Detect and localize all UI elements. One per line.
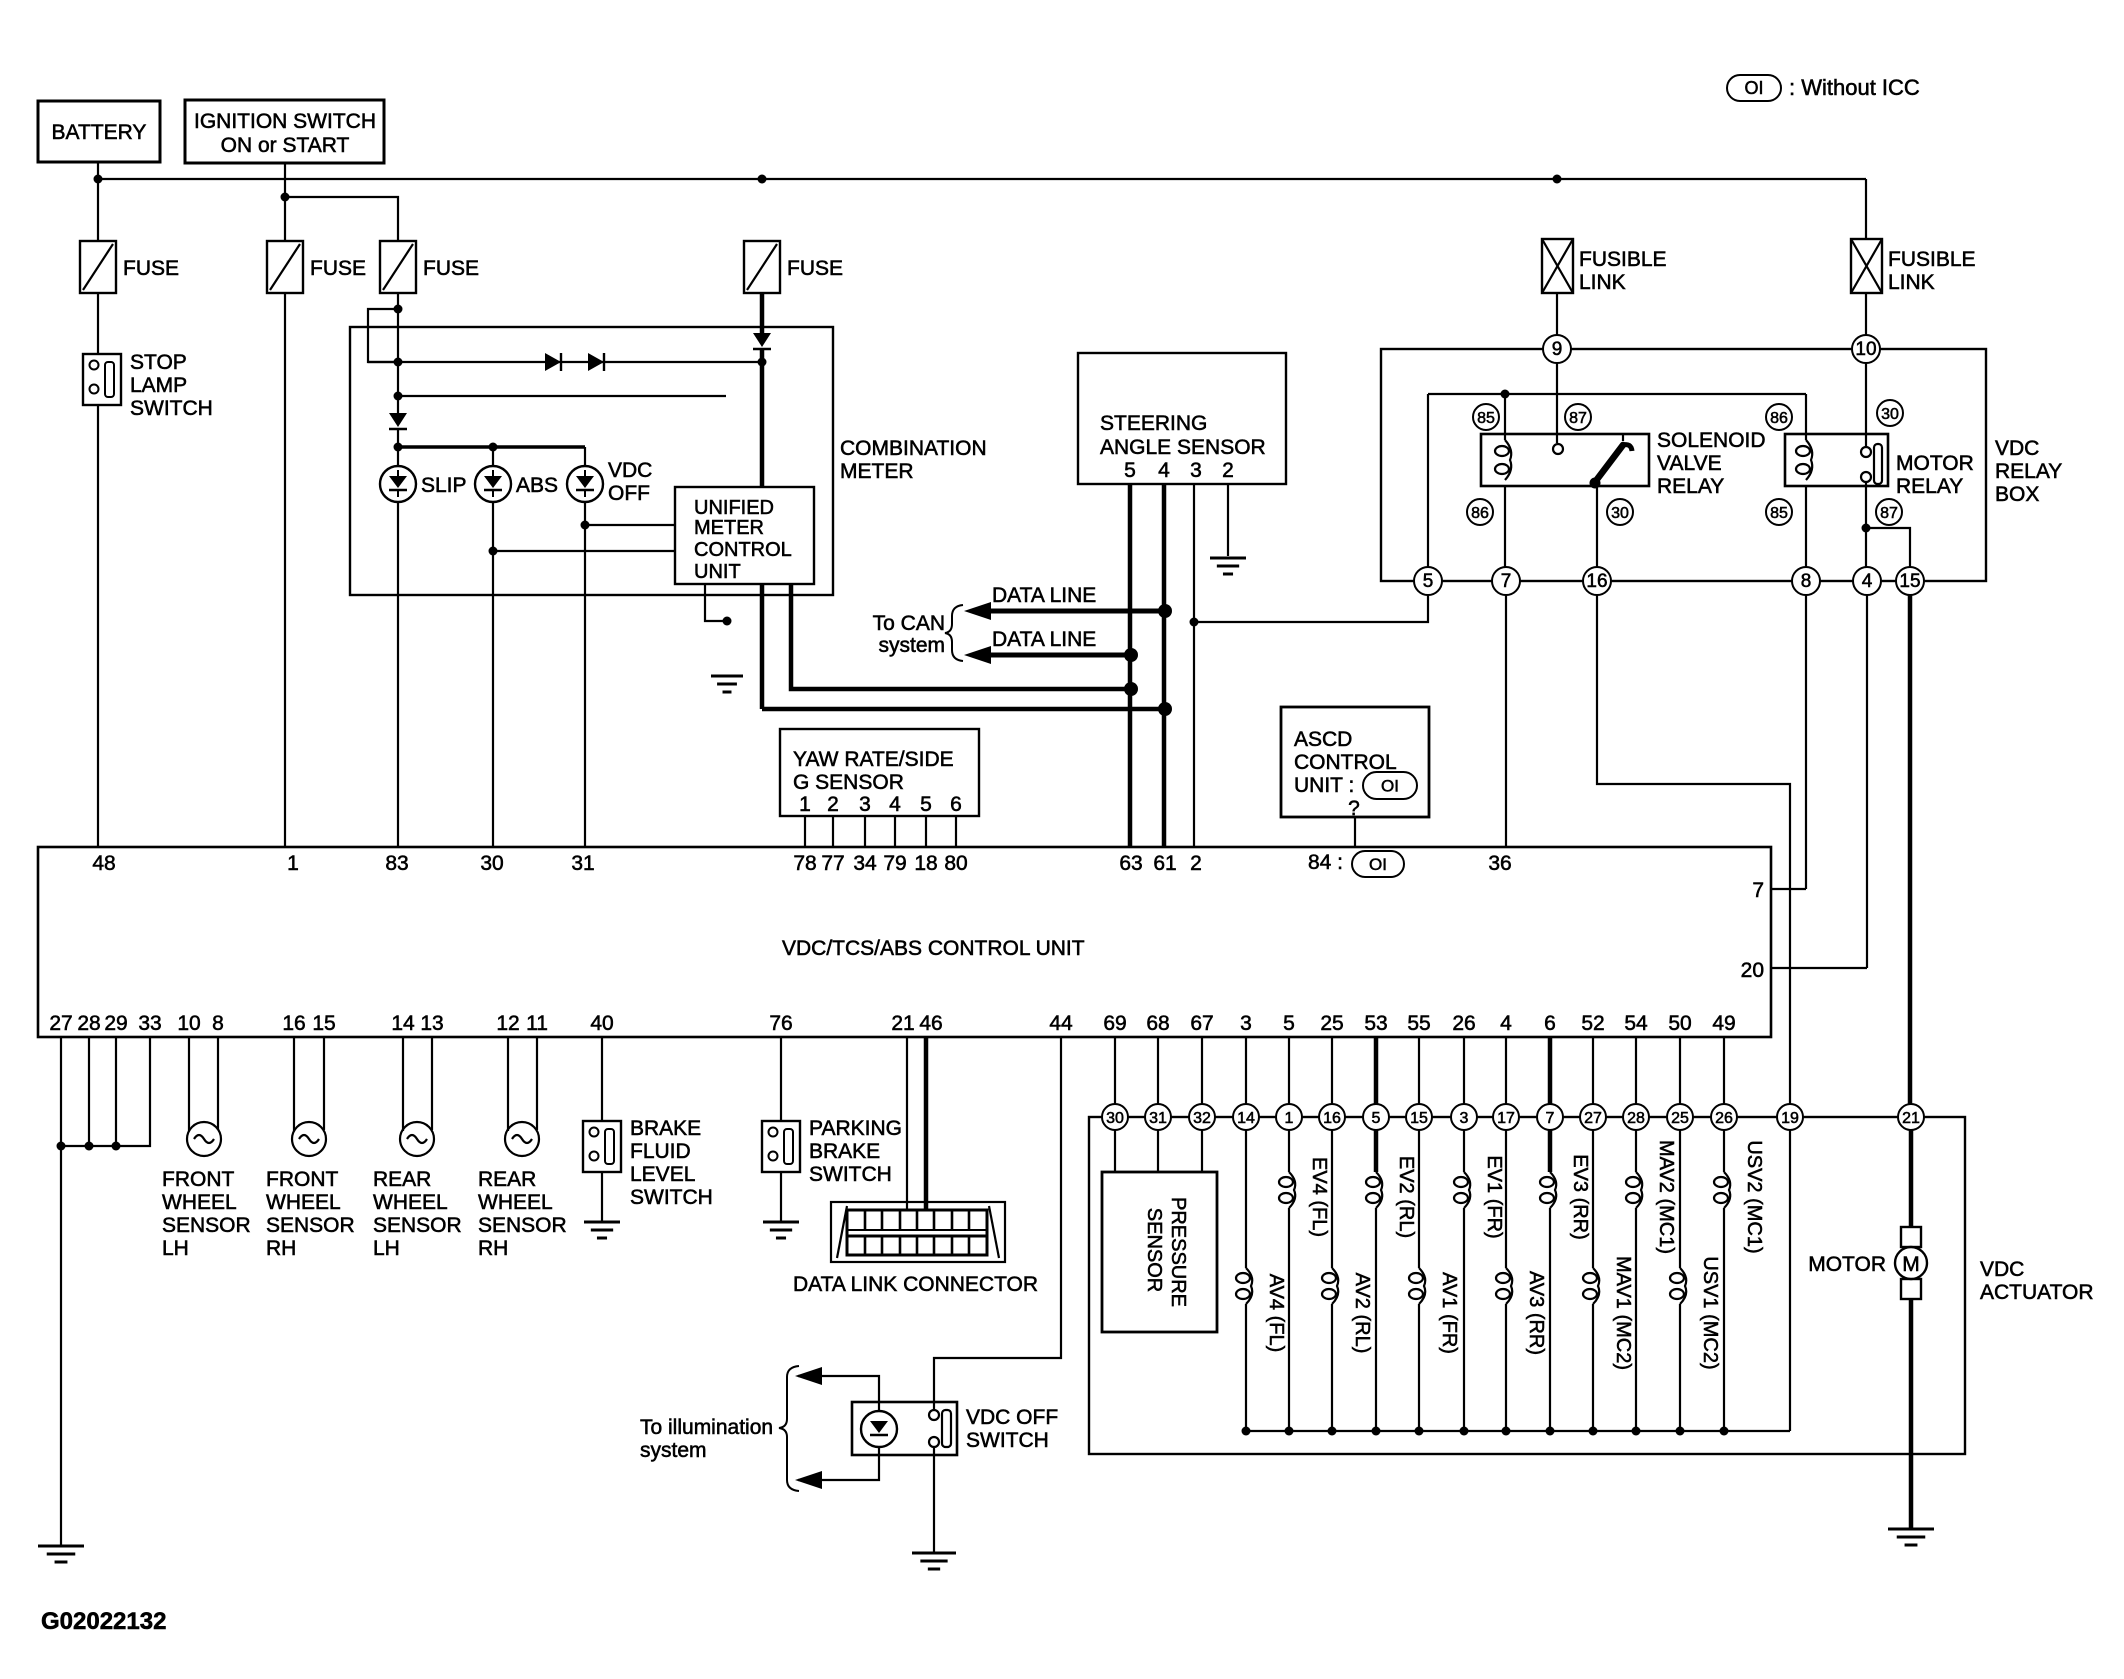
svg-text:STEERING: STEERING [1100, 412, 1207, 435]
svg-text:PRESSURE: PRESSURE [1167, 1197, 1189, 1307]
svg-text:VDC: VDC [1995, 437, 2039, 460]
vdc off switch box [852, 1402, 1058, 1455]
svg-text:COMBINATION: COMBINATION [840, 437, 987, 460]
pin c16 actuator [1319, 1104, 1345, 1130]
svg-text:46: 46 [919, 1012, 942, 1035]
svg-text:EV4 (FL): EV4 (FL) [1308, 1157, 1330, 1237]
pin 85 motor [1766, 499, 1792, 525]
pin 8 relaybox [1792, 567, 1820, 595]
svg-text:M: M [1902, 1253, 1920, 1276]
node coil USV1 (MC2) [1676, 1427, 1685, 1436]
svg-text:87: 87 [1880, 505, 1898, 522]
svg-text:STOP: STOP [130, 351, 187, 374]
wire ASCD to pin 84 [1354, 817, 1356, 847]
wires pins 27-33 [61, 1037, 150, 1146]
svg-text:REAR: REAR [478, 1168, 536, 1191]
unified meter control unit box [675, 487, 814, 584]
pin c19 actuator [1777, 1104, 1803, 1130]
node pin3 branch [1190, 618, 1199, 627]
wire pin 31 pressure [1157, 1037, 1159, 1172]
svg-text:RH: RH [266, 1237, 296, 1260]
indicator lamp SLIP [380, 466, 467, 502]
data line arrow 1 [964, 584, 1165, 620]
svg-text:5: 5 [1423, 571, 1434, 592]
solenoid EV1 (FR) wire [1454, 1037, 1505, 1431]
svg-text:44: 44 [1049, 1012, 1073, 1035]
pin 10 [1852, 335, 1880, 363]
node relay feed coil [1501, 390, 1510, 399]
pin c3 actuator [1451, 1104, 1477, 1130]
svg-text:IGNITION SWITCH: IGNITION SWITCH [194, 110, 376, 133]
labels control unit bottom pins [49, 1012, 1735, 1035]
pin 87 solenoid [1565, 404, 1591, 430]
svg-text:30: 30 [1611, 505, 1629, 522]
svg-text:48: 48 [92, 852, 115, 875]
wire fuse4 down [760, 293, 765, 334]
svg-text:33: 33 [138, 1012, 161, 1035]
pin 5 relaybox [1414, 567, 1442, 595]
wire parking brake to ground [780, 1172, 782, 1222]
svg-text:11: 11 [526, 1012, 548, 1035]
node data line 2 [1124, 648, 1138, 662]
wire stop lamp to pin 48 [97, 405, 99, 847]
svg-text:4: 4 [1500, 1012, 1512, 1035]
solenoid AV4 (FL) wire [1236, 1037, 1287, 1431]
svg-text:ANGLE SENSOR: ANGLE SENSOR [1100, 436, 1266, 459]
wire abs to pin 30 [492, 502, 494, 847]
wire diode row [368, 361, 762, 363]
pressure sensor box [1102, 1172, 1217, 1332]
svg-text:7: 7 [1501, 571, 1512, 592]
parking brake switch [762, 1117, 902, 1186]
svg-text:LEVEL: LEVEL [630, 1163, 695, 1186]
svg-text:system: system [640, 1439, 707, 1462]
wire feed to motor coil [1805, 394, 1807, 440]
wire switch to ground [933, 1447, 935, 1553]
fuse F2 [267, 241, 366, 293]
diode D4 [753, 333, 771, 349]
pin 86 solenoid [1467, 499, 1493, 525]
svg-text:80: 80 [944, 852, 967, 875]
wire pin 40 down [601, 1037, 603, 1121]
svg-text:LH: LH [373, 1237, 400, 1260]
svg-text:31: 31 [571, 852, 594, 875]
svg-text:WHEEL: WHEEL [266, 1191, 341, 1214]
svg-text:To CAN: To CAN [873, 612, 945, 635]
wire sensor pin4 to pin61 [1162, 484, 1167, 847]
node bus-battery [94, 175, 103, 184]
node coil EV2 (RL) [1372, 1427, 1381, 1436]
wires rear wheel sensor LH [403, 1037, 432, 1131]
pin c1 actuator [1276, 1104, 1302, 1130]
svg-text:3: 3 [1240, 1012, 1252, 1035]
svg-text:YAW RATE/SIDE: YAW RATE/SIDE [793, 748, 954, 771]
svg-text:10: 10 [1855, 339, 1876, 360]
data line arrow 2 [964, 628, 1131, 664]
svg-text:?: ? [1348, 797, 1360, 820]
svg-text:ON or START: ON or START [221, 134, 350, 157]
legend OI without ICC [1727, 75, 1920, 101]
node diode row left [394, 358, 403, 367]
svg-text:27: 27 [1584, 1110, 1602, 1127]
node coil AV1 (FR) [1415, 1427, 1424, 1436]
svg-text:8: 8 [1801, 571, 1812, 592]
wire 10 to contact [1865, 363, 1867, 447]
pin c21 actuator [1898, 1104, 1924, 1130]
svg-text:BOX: BOX [1995, 483, 2039, 506]
svg-text:3: 3 [859, 793, 871, 816]
svg-text:LINK: LINK [1579, 271, 1626, 294]
wire brake fluid to ground [601, 1172, 603, 1222]
node bus-fusiblelink1 [1553, 175, 1562, 184]
svg-text:BRAKE: BRAKE [809, 1140, 880, 1163]
svg-text:17: 17 [1497, 1110, 1515, 1127]
fuse F4 [744, 241, 843, 293]
wire sensor pin3 to pin2 [1193, 484, 1195, 847]
svg-text:15: 15 [312, 1012, 335, 1035]
svg-text:OFF: OFF [608, 482, 650, 505]
svg-text:4: 4 [889, 793, 901, 816]
svg-text:SWITCH: SWITCH [130, 397, 213, 420]
svg-text:VDC/TCS/ABS CONTROL UNIT: VDC/TCS/ABS CONTROL UNIT [782, 937, 1085, 960]
svg-text:54: 54 [1624, 1012, 1648, 1035]
stop lamp switch [83, 351, 213, 420]
wire 19 down [1789, 1130, 1791, 1431]
svg-text:3: 3 [1190, 459, 1202, 482]
indicator lamp ABS [475, 466, 558, 502]
pin c25 actuator [1667, 1104, 1693, 1130]
svg-text:5: 5 [1372, 1110, 1381, 1127]
motor relay contact [1861, 444, 1882, 484]
svg-text:21: 21 [891, 1012, 914, 1035]
svg-text:SENSOR: SENSOR [266, 1214, 355, 1237]
wire 4 to pin 20 [1866, 595, 1868, 968]
vdc off switch contacts [929, 1410, 951, 1447]
wire FL1 to circle 9 [1556, 293, 1558, 335]
svg-text:2: 2 [1222, 459, 1234, 482]
wire coil top [1504, 394, 1506, 440]
pin c14 actuator [1233, 1104, 1259, 1130]
svg-text:40: 40 [590, 1012, 613, 1035]
pin 86 motor [1766, 404, 1792, 430]
svg-text:EV1 (FR): EV1 (FR) [1483, 1155, 1505, 1238]
wire stub pin7 [1771, 888, 1806, 890]
wire solenoid contact to 16 [1596, 486, 1598, 567]
svg-text:1: 1 [287, 852, 299, 875]
svg-text:LH: LH [162, 1237, 189, 1260]
svg-text:DATA LINE: DATA LINE [992, 628, 1096, 651]
ASCD control unit box [1281, 707, 1429, 820]
pin 9 [1543, 335, 1571, 363]
svg-text:20: 20 [1741, 959, 1764, 982]
svg-text:6: 6 [950, 793, 962, 816]
svg-text:2: 2 [827, 793, 839, 816]
svg-text:28: 28 [77, 1012, 100, 1035]
svg-text:86: 86 [1471, 505, 1489, 522]
diode D3 [389, 413, 407, 429]
svg-text:16: 16 [282, 1012, 305, 1035]
svg-text:RELAY: RELAY [1657, 475, 1724, 498]
svg-text:EV3 (RR): EV3 (RR) [1569, 1154, 1591, 1240]
vdc off switch LED [861, 1411, 897, 1447]
svg-text:25: 25 [1671, 1110, 1689, 1127]
svg-text:VDC: VDC [1980, 1258, 2024, 1281]
svg-text:USV2 (MC1): USV2 (MC1) [1743, 1140, 1765, 1253]
wire pin 76 down [780, 1037, 782, 1121]
svg-text:26: 26 [1452, 1012, 1475, 1035]
svg-text:16: 16 [1586, 571, 1607, 592]
wires front wheel sensor RH [294, 1037, 324, 1131]
pin 4 relaybox [1853, 567, 1881, 595]
wire pin 21 down [906, 1037, 908, 1210]
wire bus corner to FL2 [1865, 179, 1867, 239]
svg-text:G SENSOR: G SENSOR [793, 771, 904, 794]
steering angle sensor box [1078, 353, 1286, 484]
svg-text:METER: METER [840, 460, 914, 483]
svg-text:67: 67 [1190, 1012, 1213, 1035]
svg-text:FUSIBLE: FUSIBLE [1579, 248, 1667, 271]
svg-text:53: 53 [1364, 1012, 1387, 1035]
svg-text:CONTROL: CONTROL [1294, 751, 1397, 774]
svg-text:RH: RH [478, 1237, 508, 1260]
pin c17 actuator [1493, 1104, 1519, 1130]
pin 7 relaybox [1492, 567, 1520, 595]
svg-text:34: 34 [853, 852, 877, 875]
svg-text:MOTOR: MOTOR [1896, 452, 1974, 475]
svg-text:SWITCH: SWITCH [966, 1429, 1049, 1452]
svg-text:UNIT :: UNIT : [1294, 774, 1354, 797]
node coil AV3 (RR) [1502, 1427, 1511, 1436]
svg-text:12: 12 [496, 1012, 519, 1035]
solenoid EV4 (FL) wire [1279, 1037, 1330, 1431]
svg-text:system: system [878, 634, 945, 657]
node led bus abs [489, 443, 498, 452]
node coil USV2 (MC1) [1720, 1427, 1729, 1436]
motor relay coil [1796, 440, 1812, 480]
node vdcoff branch [581, 521, 590, 530]
wire fuse4 thick down [760, 350, 765, 709]
svg-text:5: 5 [1283, 1012, 1295, 1035]
svg-text:VDC OFF: VDC OFF [966, 1406, 1058, 1429]
motor [1808, 1227, 1927, 1299]
wire can feed 1 [791, 584, 1131, 689]
solenoid AV2 (RL) wire [1322, 1037, 1373, 1431]
svg-text:14: 14 [391, 1012, 415, 1035]
node 27 [57, 1142, 66, 1151]
wire 5 to steering junction [1194, 595, 1428, 622]
svg-text:13: 13 [420, 1012, 443, 1035]
data link connector [793, 1202, 1038, 1296]
wire sensor pin5 to pin63 [1128, 484, 1133, 847]
wire solenoid coil to 7 [1504, 486, 1506, 567]
svg-text:7: 7 [1546, 1110, 1555, 1127]
wire 8 to pin 7 [1805, 595, 1807, 889]
svg-text:SLIP: SLIP [421, 474, 467, 497]
rear wheel sensor RH [478, 1122, 567, 1260]
VDC actuator box [1089, 1117, 2094, 1454]
svg-text:MOTOR: MOTOR [1808, 1253, 1886, 1276]
wire coil return bus [1246, 1430, 1790, 1432]
svg-text:G02022132: G02022132 [41, 1608, 166, 1635]
node unified stub end [723, 617, 732, 626]
svg-text:4: 4 [1862, 571, 1873, 592]
ground motor [1888, 1529, 1934, 1545]
wire vdcoff drop [584, 447, 586, 466]
svg-text:18: 18 [914, 852, 937, 875]
svg-text:DATA LINK CONNECTOR: DATA LINK CONNECTOR [793, 1273, 1038, 1296]
wire fuse2 to pin 1 [284, 293, 286, 847]
svg-text:76: 76 [769, 1012, 792, 1035]
wire fuse1 to stop lamp switch [97, 293, 99, 354]
svg-text:RELAY: RELAY [1995, 460, 2062, 483]
svg-text:FUSE: FUSE [123, 257, 179, 280]
svg-text:16: 16 [1323, 1110, 1341, 1127]
wire motor contact down [1865, 482, 1867, 567]
solenoid AV3 (RR) wire [1496, 1037, 1547, 1431]
motor relay box [1785, 434, 1974, 498]
svg-text:79: 79 [883, 852, 906, 875]
svg-text:7: 7 [1752, 879, 1764, 902]
svg-text:29: 29 [104, 1012, 127, 1035]
svg-text:30: 30 [1881, 406, 1899, 423]
pin c31 actuator [1145, 1104, 1171, 1130]
svg-text:USV1 (MC2): USV1 (MC2) [1699, 1256, 1721, 1369]
front wheel sensor RH [266, 1122, 355, 1260]
svg-text:31: 31 [1149, 1110, 1167, 1127]
wire fuse3 into meter [397, 293, 399, 415]
svg-text:CONTROL: CONTROL [694, 539, 792, 561]
svg-text:30: 30 [1106, 1110, 1124, 1127]
svg-text:EV2 (RL): EV2 (RL) [1395, 1156, 1417, 1238]
svg-text:27: 27 [49, 1012, 72, 1035]
combination meter box [350, 327, 987, 595]
svg-text:OI: OI [1369, 855, 1387, 874]
diode D1 [545, 353, 561, 371]
ground brake fluid [584, 1222, 620, 1238]
wires rear wheel sensor RH [508, 1037, 537, 1131]
indicator lamp VDC OFF [567, 459, 652, 505]
fuse F3 [380, 241, 479, 293]
svg-text:63: 63 [1119, 852, 1142, 875]
wire 7 to pin 36 [1505, 595, 1507, 847]
pin 16 relaybox [1583, 567, 1611, 595]
svg-text:BRAKE: BRAKE [630, 1117, 701, 1140]
wires yaw sensor pins [805, 816, 956, 847]
battery [38, 101, 160, 162]
svg-text:52: 52 [1581, 1012, 1604, 1035]
svg-text:SENSOR: SENSOR [373, 1214, 462, 1237]
node diode row right [758, 358, 767, 367]
wire ignition down [284, 163, 286, 241]
wire branch to 15 [1866, 528, 1910, 567]
wire slip to pin 83 [397, 502, 399, 847]
svg-text:WHEEL: WHEEL [373, 1191, 448, 1214]
svg-text:87: 87 [1569, 410, 1587, 427]
pin c5 actuator [1363, 1104, 1389, 1130]
wire stub row [398, 395, 726, 397]
label G02022132 [41, 1608, 166, 1635]
svg-text:61: 61 [1153, 852, 1176, 875]
svg-text:VALVE: VALVE [1657, 452, 1722, 475]
svg-text:36: 36 [1488, 852, 1511, 875]
label to illumination system [640, 1366, 799, 1491]
diode D2 [588, 353, 604, 371]
solenoid USV1 (MC2) wire [1670, 1037, 1721, 1431]
wire 16 to circle 19 [1597, 595, 1790, 1104]
svg-text:ASCD: ASCD [1294, 728, 1352, 751]
solenoid relay coil [1495, 440, 1511, 480]
svg-text:25: 25 [1320, 1012, 1343, 1035]
svg-text:83: 83 [385, 852, 408, 875]
svg-text:5: 5 [1124, 459, 1136, 482]
node coil AV2 (RL) [1328, 1427, 1337, 1436]
solenoid MAV1 (MC2) wire [1583, 1037, 1634, 1431]
svg-text:METER: METER [694, 517, 764, 539]
svg-text:2: 2 [1190, 852, 1202, 875]
svg-text:85: 85 [1477, 410, 1495, 427]
svg-text:19: 19 [1781, 1110, 1799, 1127]
wire abs drop [492, 447, 494, 466]
solenoid EV3 (RR) wire [1540, 1037, 1591, 1431]
svg-text:AV3 (RR): AV3 (RR) [1525, 1271, 1547, 1355]
wire motor to ground [1909, 1299, 1914, 1529]
svg-text:MAV2 (MC1): MAV2 (MC1) [1655, 1140, 1677, 1254]
labels control unit top pins [92, 852, 1511, 875]
svg-text:30: 30 [480, 852, 503, 875]
label pin 7 right [1752, 879, 1764, 902]
svg-text:77: 77 [821, 852, 844, 875]
node led bus slip [394, 443, 403, 452]
wire 21 to motor [1909, 1130, 1914, 1227]
svg-text:UNIT: UNIT [694, 561, 741, 583]
svg-text:21: 21 [1902, 1110, 1920, 1127]
node ignition branch [281, 193, 290, 202]
svg-text:WHEEL: WHEEL [478, 1191, 553, 1214]
svg-text:ACTUATOR: ACTUATOR [1980, 1281, 2094, 1304]
node coil MAV1 (MC2) [1589, 1427, 1598, 1436]
wire abs branch to unified unit [493, 550, 674, 552]
ground meter [711, 676, 743, 692]
wire pin 30 pressure [1114, 1037, 1116, 1172]
svg-text:1: 1 [799, 793, 811, 816]
node data line 1 [1158, 604, 1172, 618]
wire motor coil to 8 [1805, 486, 1807, 567]
svg-text:SENSOR: SENSOR [478, 1214, 567, 1237]
fusible link FL2 [1851, 239, 1976, 294]
solenoid valve relay box [1481, 429, 1766, 498]
svg-text:26: 26 [1715, 1110, 1733, 1127]
wire pin 32 pressure [1201, 1037, 1203, 1172]
wire FL2 to circle 10 [1865, 293, 1867, 335]
node abs branch [489, 547, 498, 556]
wire sensor pin2 ground [1227, 484, 1229, 556]
svg-text:FUSE: FUSE [787, 257, 843, 280]
svg-text:50: 50 [1668, 1012, 1691, 1035]
solenoid AV1 (FR) wire [1409, 1037, 1460, 1431]
svg-text:15: 15 [1410, 1110, 1428, 1127]
svg-text:OI: OI [1381, 777, 1399, 796]
svg-text:14: 14 [1237, 1110, 1255, 1127]
svg-text:LAMP: LAMP [130, 374, 187, 397]
svg-text:10: 10 [177, 1012, 200, 1035]
node fuse3 top [394, 305, 403, 314]
fusible link FL1 [1542, 239, 1667, 294]
label pin 84 OI [1308, 851, 1404, 877]
pin 87 motor [1876, 499, 1902, 525]
solenoid MAV2 (MC1) wire [1626, 1037, 1677, 1431]
wire ground main [60, 1146, 62, 1546]
svg-text:49: 49 [1712, 1012, 1735, 1035]
